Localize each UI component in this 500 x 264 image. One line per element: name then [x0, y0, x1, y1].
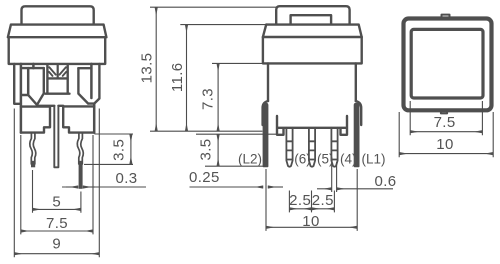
- front view: funnel left: [28, 68, 44, 105]
- top view: inner square: [411, 29, 483, 98]
- side view: pin 6: [286, 128, 292, 167]
- dim 2.5 side: dimension lines: [289, 208, 311, 210]
- dim 7.5 front: dimension line: [21, 230, 93, 232]
- svg-text:9: 9: [52, 235, 61, 252]
- side view: collar trapezoid: [263, 25, 362, 37]
- dim 10 top: extension lines: [399, 112, 493, 157]
- front view: platform: [37, 105, 63, 107]
- dim 7.3 side: extension line: [212, 62, 268, 64]
- side view: base bottom: [277, 116, 347, 135]
- svg-text:2.5: 2.5: [289, 192, 311, 209]
- svg-text:13.5: 13.5: [139, 53, 156, 84]
- dim 7.3 side: dimension line: [217, 63, 219, 131]
- svg-text:7.5: 7.5: [46, 215, 68, 232]
- dim 5 front: dimension line: [33, 208, 81, 210]
- dim 0.25 side: leader and arrows: [190, 186, 264, 188]
- dim 7.5 front: extension lines: [21, 135, 93, 234]
- top view: top tab: [442, 15, 450, 17]
- dim 3.5 side: dimension line: [217, 134, 219, 166]
- svg-text:3.5: 3.5: [197, 138, 214, 160]
- dim 3.5 side: extension lines: [196, 134, 277, 166]
- dim 10 side: dimension line: [266, 226, 357, 228]
- top view: bottom tab: [441, 110, 447, 113]
- side view: leg L2: [263, 103, 267, 166]
- svg-text:(6): (6): [294, 152, 311, 167]
- dimension texts: [46, 53, 456, 253]
- dim 13.5 side: dimension line: [155, 7, 157, 131]
- svg-text:3.5: 3.5: [110, 139, 127, 161]
- front view: funnel right: [78, 68, 94, 103]
- dim 11.6 side: extension line: [180, 24, 266, 26]
- svg-text:(L1): (L1): [362, 152, 386, 167]
- front view: center pin: [54, 106, 58, 168]
- svg-text:0.3: 0.3: [116, 170, 138, 187]
- svg-text:10: 10: [302, 213, 320, 230]
- front view: shelves: [22, 67, 91, 69]
- front view: hatch diagonals: [49, 67, 66, 76]
- dim 10 top: dimension line: [399, 153, 493, 155]
- side view: mid body: [268, 63, 356, 101]
- front view: body: [9, 37, 106, 64]
- side view: base: [263, 101, 362, 125]
- svg-text:10: 10: [436, 136, 454, 153]
- side view: cap step: [291, 15, 332, 24]
- dim 0.3 front: leader: [62, 186, 146, 188]
- front view: right slot: [91, 64, 94, 133]
- side view: leg L1: [355, 103, 359, 166]
- svg-text:11.6: 11.6: [169, 62, 186, 92]
- dim 0.3 front: arrows: [66, 186, 78, 188]
- dim 7.5 top: extension lines: [410, 101, 482, 135]
- dim 0.6 side: leader and arrows: [317, 188, 332, 190]
- front view: left slot: [21, 64, 34, 133]
- dim 3.5 front: extension lines: [84, 134, 133, 164]
- side view: pin 4: [331, 128, 337, 167]
- front view: center divider: [57, 65, 59, 79]
- svg-text:7.3: 7.3: [200, 88, 217, 110]
- svg-text:0.6: 0.6: [375, 173, 397, 190]
- front view: center contact square: [45, 65, 69, 94]
- svg-text:(5): (5): [317, 152, 334, 167]
- dim 3.5 front: dimension line: [130, 134, 132, 164]
- front view: button cap: [22, 6, 94, 24]
- front view: right outer leg: [94, 64, 99, 104]
- top view: outer square: [404, 19, 492, 111]
- front view: left block: [21, 107, 50, 133]
- dim 9 front: extension lines: [14, 109, 99, 258]
- svg-text:0.25: 0.25: [189, 169, 220, 186]
- side view: upper body: [263, 37, 362, 63]
- front view: right block: [63, 106, 94, 132]
- front view: left outer leg: [14, 64, 21, 104]
- svg-text:5: 5: [52, 194, 61, 211]
- dim 7.5 top: dimension line: [410, 131, 482, 133]
- dim 10 side: extension lines: [266, 169, 357, 231]
- front view: collar trapezoid: [8, 25, 107, 38]
- svg-text:7.5: 7.5: [434, 114, 456, 131]
- svg-text:(L2): (L2): [238, 152, 262, 167]
- dim 2.5 side: extension lines: [289, 191, 334, 213]
- svg-text:2.5: 2.5: [312, 192, 334, 209]
- dim 11.6 side: dimension line: [186, 25, 188, 132]
- dim 9 front: dimension line: [14, 253, 99, 255]
- dim 5 front: extension lines: [33, 170, 81, 213]
- side view: pin 5: [309, 128, 315, 167]
- front view: right wavy pin: [77, 133, 83, 164]
- dim 13.5 side: extension lines: [150, 7, 276, 131]
- front view: left wavy pin: [30, 133, 36, 164]
- dim 0.6 side: extension lines: [332, 162, 337, 192]
- svg-text:(4): (4): [340, 152, 357, 167]
- side view: button cap: [276, 6, 349, 24]
